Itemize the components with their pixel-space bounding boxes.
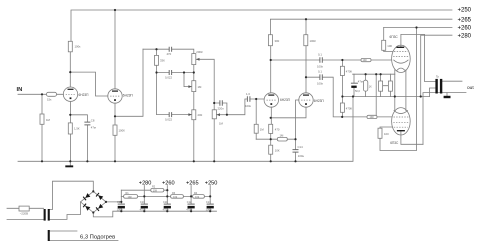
capacitor C11 bottom plate <box>164 206 171 209</box>
wire plate tube1 to rail <box>69 52 71 87</box>
resistor R1 PSU (rounded) <box>124 195 138 199</box>
wire 470K upper leads <box>341 60 343 97</box>
capacitor C10 top plate <box>141 203 148 205</box>
svg-text:10К: 10К <box>153 190 158 193</box>
junction node (115,161.3) <box>114 160 116 162</box>
svg-text:100: 100 <box>387 44 392 48</box>
wire 470K lower leads <box>341 97 343 117</box>
wire 33K leads <box>156 49 158 72</box>
svg-text:100К: 100К <box>119 129 126 133</box>
resistor R3 PSU (rounded) <box>171 195 184 199</box>
svg-text:470К: 470К <box>346 106 353 110</box>
wire +250 rail <box>71 10 452 41</box>
junction node (420.7,96.5) <box>420 95 422 97</box>
svg-text:1М: 1М <box>260 127 265 131</box>
wire tube1 cathode <box>70 101 72 161</box>
junction node (342.4,96.5) <box>341 95 343 97</box>
junction node (256.2,99) <box>255 98 257 100</box>
svg-text:6Н23П: 6Н23П <box>123 93 134 97</box>
svg-text:+250: +250 <box>205 180 218 186</box>
wire input 1M drop <box>41 94 43 161</box>
tube out1 pentode <box>392 45 411 72</box>
wire heater leads <box>50 231 118 241</box>
junction node (270.7,139.2) <box>270 138 272 140</box>
wire plate1 to OT <box>401 34 436 81</box>
junction node (42,161.3) <box>41 160 43 162</box>
capacitor bias cell top plate <box>351 82 358 84</box>
svg-text:100: 100 <box>384 132 389 136</box>
wire cathode cell top <box>353 73 395 75</box>
svg-text:10К: 10К <box>275 148 280 152</box>
wire 100K anode load t4 <box>305 19 307 93</box>
wire rect to first cap node <box>106 190 121 204</box>
svg-text:С8: С8 <box>91 118 95 122</box>
wire OT ground stub <box>446 93 448 96</box>
capacitor C11 top plate <box>164 203 171 205</box>
junction node (191.1,211.2) <box>190 210 192 212</box>
wire cathode bypass branch <box>71 115 88 162</box>
svg-text:+265: +265 <box>186 180 199 186</box>
wire +260 rail <box>384 27 452 29</box>
junction node (270.7,161.3) <box>270 160 272 162</box>
svg-text:200К: 200К <box>196 50 203 54</box>
wire grid4 <box>296 100 299 139</box>
diode VD4 bridge bottom-left <box>83 203 91 210</box>
junction node (115,116.3) <box>114 115 116 117</box>
capacitor C9 bottom plate <box>118 206 125 209</box>
junction node (70.3,114.8) <box>69 114 71 116</box>
wire treble pot wiper chain <box>196 59 214 103</box>
svg-text:470К: 470К <box>346 69 353 73</box>
resistor 100K tube2 cathode load <box>113 125 117 135</box>
transformer PSU HV secondary winding bar <box>48 209 50 221</box>
wire +260 to screen2 <box>380 28 417 151</box>
wire plate2 bottom lead <box>400 131 402 135</box>
svg-text:1,5К: 1,5К <box>74 127 80 131</box>
wire 470 bottom <box>270 133 272 145</box>
junction node (210.2,196.4) <box>209 195 211 197</box>
junction node (193.8,72.5) <box>193 71 195 73</box>
wire C14 leads <box>295 139 297 161</box>
svg-text:1М: 1М <box>280 133 285 137</box>
junction node (416.5,27.5) <box>415 26 417 28</box>
junction node (214.2,103) <box>213 102 215 104</box>
wire coupling t1-plate to t2-grid <box>70 72 108 96</box>
svg-text:220п: 220п <box>218 106 225 110</box>
junction node (214.2,161.3) <box>213 160 215 162</box>
wire +265 rail <box>270 19 452 35</box>
junction node (210.2,211.2) <box>209 210 211 212</box>
resistor grid stopper 1 (rounded) <box>361 58 371 61</box>
svg-text:6П3С: 6П3С <box>390 35 399 39</box>
svg-text:100к: 100к <box>317 82 324 86</box>
wire OT secondary return <box>423 93 466 145</box>
wire heater links tubes <box>395 70 406 111</box>
junction node (191.1,196.4) <box>190 195 192 197</box>
resistor 1M grid leak t3 <box>254 124 258 133</box>
junction node (106,201.9) <box>105 201 107 203</box>
resistor 1M link (rounded) <box>277 137 287 141</box>
wire +280 rail <box>421 35 452 96</box>
transformer PSU heater winding bar <box>48 230 50 241</box>
capacitor C13 top plate <box>207 203 214 205</box>
ground bar main <box>65 165 73 167</box>
resistor 33K tone <box>155 55 159 65</box>
svg-text:100м: 100м <box>117 209 123 212</box>
wire grid2 <box>342 116 392 118</box>
svg-text:С13: С13 <box>206 201 211 204</box>
wire R bias2 leads <box>383 74 391 96</box>
svg-text:470м: 470м <box>163 209 169 212</box>
wire AC top feed <box>50 181 94 209</box>
tube t1 6N23P triode <box>63 87 77 101</box>
wire PSU cap bottoms <box>121 208 210 211</box>
junction node (270.7,60) <box>270 59 272 61</box>
wire pot3 bottom to bus <box>193 120 195 162</box>
capacitor bias cell bottom plate (black) <box>351 86 356 88</box>
svg-text:Тр: Тр <box>436 75 440 79</box>
resistor 10K tail <box>269 145 273 154</box>
junction node (184,72.5) <box>183 71 185 73</box>
wire coupling cap A <box>271 59 343 61</box>
wire oval resistor leads <box>365 74 367 96</box>
wire mains primary <box>7 208 44 219</box>
wire OT lower primary <box>430 88 436 97</box>
svg-text:470м: 470м <box>186 209 192 212</box>
junction node (87.4,161.3) <box>86 160 88 162</box>
capacitor C12 bottom plate <box>188 206 195 209</box>
svg-text:С11: С11 <box>163 201 168 204</box>
capacitor C9 top plate <box>118 203 125 205</box>
junction node (93.3,191.4) <box>92 190 94 192</box>
svg-text:С14: С14 <box>298 145 304 149</box>
wire 220p branch <box>214 103 227 115</box>
resistor oval bias <box>363 80 367 91</box>
svg-text:1М: 1М <box>198 85 203 89</box>
wire node y139 <box>256 138 295 140</box>
wire drop to bass pot wiper <box>184 73 192 87</box>
junction node (295.5,139.2) <box>294 138 296 140</box>
wire volume pot leads <box>213 103 215 161</box>
svg-text:100К: 100К <box>310 39 317 43</box>
wire input <box>18 93 63 95</box>
capacitor C13 bottom plate <box>207 206 214 209</box>
junction node (144.3,196.4) <box>143 195 145 197</box>
svg-text:100к: 100к <box>317 64 324 68</box>
svg-text:100н: 100н <box>298 154 305 158</box>
svg-text:6Н23П: 6Н23П <box>314 99 325 103</box>
svg-text:С10: С10 <box>140 201 145 204</box>
wire bias drop to grid2 <box>375 74 377 117</box>
svg-text:6П3С: 6П3С <box>390 141 399 145</box>
svg-text:10К: 10К <box>173 196 178 199</box>
svg-text:10К: 10К <box>363 59 368 62</box>
svg-text:6Н23П: 6Н23П <box>79 93 90 97</box>
svg-text:С12: С12 <box>187 201 192 204</box>
junction node (121.3,211.2) <box>120 210 122 212</box>
junction node (365.6,74.2) <box>365 73 367 75</box>
svg-text:out: out <box>467 85 474 91</box>
junction node (70.3,72.1) <box>69 71 71 73</box>
potentiometer 200K treble <box>192 54 196 65</box>
resistor 470K lower <box>340 103 344 112</box>
wire bias cap leads <box>353 74 355 96</box>
wire PSU low chain <box>121 195 210 197</box>
svg-text:50,0: 50,0 <box>355 90 360 93</box>
svg-text:47м: 47м <box>358 80 363 84</box>
wire screen1 feed <box>384 28 393 52</box>
diode VD2 bridge top-right <box>96 193 104 200</box>
wire common cathodes LTP <box>271 107 306 124</box>
wiper arrow volume pot <box>217 113 220 116</box>
bridge diamond <box>81 191 107 212</box>
wire tone mid <box>157 65 194 73</box>
wire 10K bottom <box>270 154 272 161</box>
tube t3 6N23P triode <box>264 93 278 107</box>
junction node (144.3,211.2) <box>143 210 145 212</box>
junction node (167.3,211.2) <box>166 210 168 212</box>
svg-text:0,1: 0,1 <box>318 70 322 74</box>
wire tube2 plate to rail <box>114 10 116 89</box>
junction node (115,10) <box>114 9 116 11</box>
svg-text:+260: +260 <box>162 180 175 186</box>
ground bar OT secondary <box>444 96 451 98</box>
junction node (93.3,212.5) <box>92 211 94 213</box>
wire bass pot leads <box>193 73 195 110</box>
junction node (156.5,72.5) <box>155 71 157 73</box>
wiper arrow low pot <box>188 113 191 116</box>
svg-text:470м: 470м <box>140 209 146 212</box>
fuse box mains <box>19 206 29 211</box>
junction node (342.4,60) <box>341 59 343 61</box>
diode VD1 bridge top-left <box>83 193 91 200</box>
capacitor bypass cathode1 (plates) <box>84 122 90 125</box>
junction node (306,77.2) <box>305 76 307 78</box>
tube out2 pentode <box>392 108 411 135</box>
resistor 1M input <box>40 114 44 124</box>
junction node (353,96.5) <box>352 95 354 97</box>
wire volume wiper <box>216 114 227 116</box>
wire R bias1 leads <box>380 74 382 96</box>
junction node (306,19.2) <box>305 18 307 20</box>
svg-text:6,3 Подогрев: 6,3 Подогрев <box>80 235 115 241</box>
svg-text:6Н23П: 6Н23П <box>280 98 291 102</box>
wire tube2 cathode <box>114 103 116 161</box>
wire tube2 cathode to tone stack <box>115 49 143 116</box>
svg-text:+280: +280 <box>458 33 472 39</box>
resistor 100 screen2 <box>378 128 382 138</box>
junction node (295.5,161.3) <box>294 160 296 162</box>
wire AC bottom feed <box>50 202 81 220</box>
junction node (380.6,74.2) <box>380 73 382 75</box>
svg-text:100к: 100к <box>245 104 252 108</box>
transformer PSU primary winding bar <box>44 209 46 221</box>
svg-text:IN: IN <box>17 87 23 93</box>
resistor R2 PSU (rounded) <box>151 188 164 192</box>
junction node (376.2,74.2) <box>375 73 377 75</box>
junction node (394.8,96.5) <box>394 95 396 97</box>
wire to grid3 coupling <box>227 99 264 115</box>
svg-text:+260: +260 <box>458 26 472 32</box>
svg-text:1М: 1М <box>219 121 224 125</box>
svg-text:33К: 33К <box>160 59 165 63</box>
resistor 100 screen1 <box>382 40 386 50</box>
resistor bias R2 <box>388 81 392 91</box>
capacitor coupling A (plates) <box>320 57 322 63</box>
wire ground symbol stub <box>69 161 71 165</box>
capacitor C14 (plates) <box>293 150 299 153</box>
junction node (342.2,116.9) <box>341 116 343 118</box>
capacitor 0.022 upper (plates) <box>169 70 171 75</box>
svg-text:470: 470 <box>167 52 172 56</box>
resistor 15k grid stopper (horizontal) <box>47 92 57 96</box>
resistor 470K upper <box>340 66 344 75</box>
svg-text:470: 470 <box>275 127 280 131</box>
svg-text:+280: +280 <box>139 180 152 186</box>
capacitor C12 top plate <box>188 203 195 205</box>
junction node (226.9,114.7) <box>226 114 228 116</box>
svg-text:0,022: 0,022 <box>165 76 172 80</box>
svg-text:+265: +265 <box>458 17 472 23</box>
capacitor C10 bottom plate <box>141 206 148 209</box>
svg-text:20К: 20К <box>198 113 203 117</box>
wire OT secondary out <box>442 80 462 82</box>
diode VD3 bridge bottom-right <box>96 204 104 211</box>
potentiometer 1M bass <box>192 81 196 92</box>
wire ground bus <box>18 97 353 162</box>
capacitor 470 tone (plates) <box>169 47 171 52</box>
tube t4 6N23P triode <box>299 93 313 107</box>
wire tone low branch <box>157 73 192 115</box>
svg-text:10К: 10К <box>195 196 200 199</box>
wire cathode2 to secondary <box>401 135 423 144</box>
svg-text:1,0: 1,0 <box>246 92 250 96</box>
resistor 30K anode t3 <box>268 35 272 46</box>
junction node (42,94.3) <box>41 93 43 95</box>
resistor 100k plate R (first stage) <box>68 41 72 52</box>
junction node (167.3,196.4) <box>166 195 168 197</box>
wire coupling cap B <box>306 77 342 117</box>
wire plate3 <box>270 46 272 93</box>
junction node (70.3,161.3) <box>69 160 71 162</box>
wire bias mid rail <box>342 96 429 98</box>
capacitor 0.022 lower (plates) <box>169 112 171 117</box>
svg-text:10К: 10К <box>128 196 133 199</box>
wire tone top <box>143 49 194 53</box>
wire PSU 0V line <box>93 211 216 217</box>
capacitor 220p (plates) <box>220 100 222 106</box>
junction node (121.3,201.9) <box>120 201 122 203</box>
transformer Tr output primary winding bar <box>435 79 437 94</box>
junction node (270.7,117.8) <box>270 117 272 119</box>
resistor R4 PSU (rounded) <box>193 195 205 199</box>
svg-text:~220В: ~220В <box>20 212 28 216</box>
svg-text:+250: +250 <box>458 8 472 14</box>
junction node (193.8,161.3) <box>193 160 195 162</box>
svg-text:0,022: 0,022 <box>165 118 172 122</box>
resistor bias R1 <box>379 81 383 91</box>
resistor 100K anode t4 <box>304 35 308 46</box>
wiper arrow bass pot <box>188 85 191 88</box>
capacitor coupling B (plates) <box>320 74 322 80</box>
junction node (156.5,49.2) <box>155 48 157 50</box>
svg-text:1М: 1М <box>46 118 51 122</box>
svg-text:100м: 100м <box>206 209 212 212</box>
transformer Tr output secondary winding bar <box>440 79 442 94</box>
wiper arrow treble pot <box>196 58 199 61</box>
svg-text:10К: 10К <box>370 116 375 119</box>
potentiometer 1M volume <box>212 110 216 119</box>
wire PSU top chain <box>121 189 167 191</box>
resistor 470 cathode LTP <box>269 124 273 133</box>
svg-text:47м: 47м <box>91 125 96 129</box>
svg-text:30К: 30К <box>275 39 280 43</box>
svg-text:100к: 100к <box>75 45 82 49</box>
junction node (167.3,190.2) <box>166 189 168 191</box>
potentiometer 20K low <box>192 110 196 120</box>
resistor 1.5K cathode <box>68 123 72 134</box>
svg-text:0,1: 0,1 <box>318 52 322 56</box>
wire grid1 <box>342 59 391 61</box>
wire PSU node stubs <box>144 186 210 205</box>
wire grid3 leak <box>255 99 257 139</box>
tube t2 6N23P triode <box>108 89 122 103</box>
capacitor coupling grid3 (plates) <box>247 96 250 102</box>
resistor grid stopper 2 (rounded) <box>367 115 377 118</box>
